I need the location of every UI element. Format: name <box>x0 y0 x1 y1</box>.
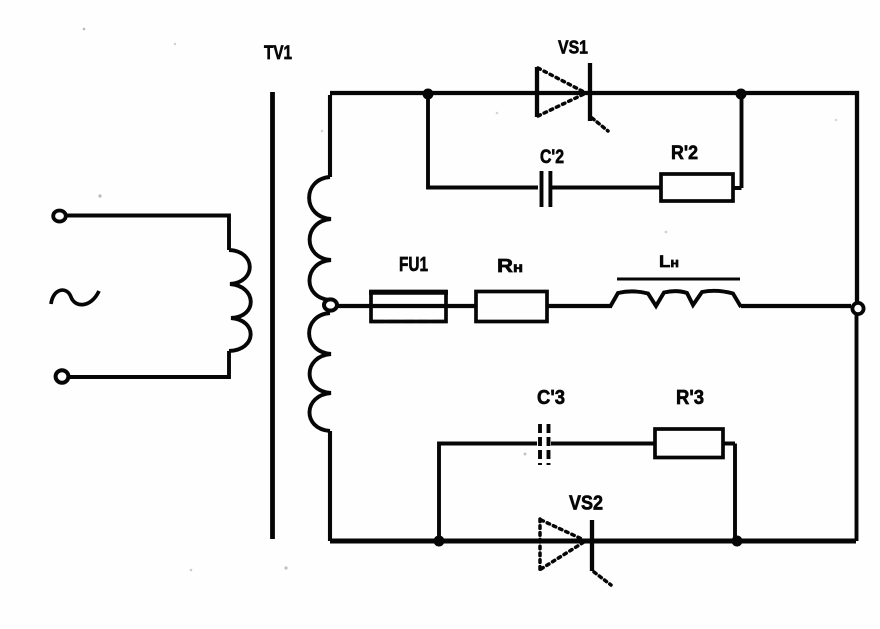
svg-text:R'2: R'2 <box>671 143 698 164</box>
svg-text:R'3: R'3 <box>676 387 704 409</box>
svg-text:FU1: FU1 <box>399 254 428 276</box>
svg-text:Rн: Rн <box>497 256 523 276</box>
svg-text:TV1: TV1 <box>264 43 292 64</box>
svg-text:Lн: Lн <box>659 252 679 271</box>
svg-text:VS2: VS2 <box>569 493 603 515</box>
svg-text:C'2: C'2 <box>540 147 564 168</box>
svg-text:VS1: VS1 <box>558 37 588 58</box>
svg-text:C'3: C'3 <box>537 387 565 409</box>
